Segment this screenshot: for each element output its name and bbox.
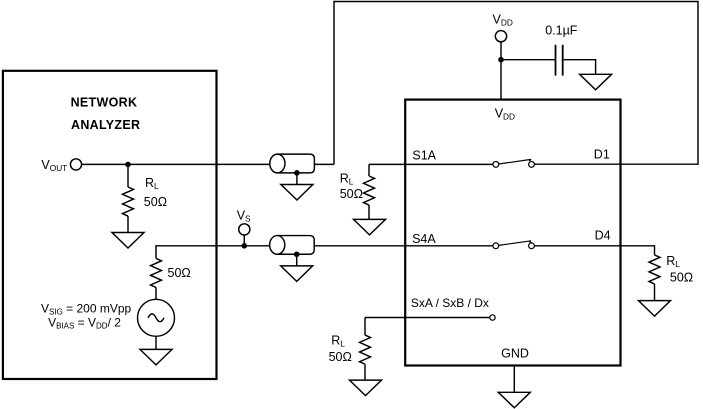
svg-text:D4: D4 [595, 229, 611, 243]
svg-text:50Ω: 50Ω [168, 266, 191, 280]
svg-text:D1: D1 [594, 147, 610, 161]
svg-text:VSIG = 200 mVpp: VSIG = 200 mVpp [41, 302, 132, 317]
svg-text:GND: GND [501, 347, 529, 361]
svg-text:VS: VS [237, 209, 251, 224]
svg-text:VDD: VDD [493, 12, 513, 27]
svg-text:50Ω: 50Ω [329, 350, 352, 364]
svg-text:VDD: VDD [495, 106, 515, 121]
svg-text:ANALYZER: ANALYZER [71, 118, 140, 132]
svg-text:RL: RL [145, 176, 159, 191]
svg-text:S1A: S1A [412, 149, 436, 163]
svg-text:VOUT: VOUT [41, 158, 67, 173]
svg-text:50Ω: 50Ω [144, 195, 167, 209]
svg-text:S4A: S4A [412, 232, 436, 246]
svg-text:VBIAS = VDD/ 2: VBIAS = VDD/ 2 [48, 316, 121, 331]
svg-text:50Ω: 50Ω [340, 187, 363, 201]
svg-text:SxA / SxB / Dx: SxA / SxB / Dx [411, 296, 489, 310]
svg-text:50Ω: 50Ω [670, 270, 693, 284]
svg-text:NETWORK: NETWORK [71, 96, 138, 110]
svg-text:RL: RL [331, 334, 345, 349]
svg-text:RL: RL [340, 172, 354, 187]
svg-text:0.1µF: 0.1µF [545, 23, 578, 37]
svg-text:RL: RL [666, 254, 680, 269]
